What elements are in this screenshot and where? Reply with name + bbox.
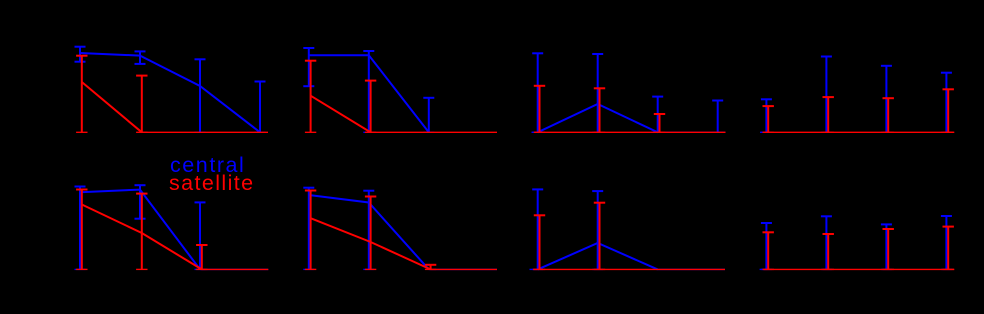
panel 5 (bottom-left): red curve floor segment 1: [202, 268, 268, 270]
panel 8 (bottom-right): blue error bar 1: [761, 223, 772, 269]
panel 1 (top-left): red curve floor segment 1: [142, 131, 268, 133]
panel 1 (top-left): blue curve "central": [80, 53, 260, 132]
panel 4 (top-right): red error bar 4: [943, 89, 954, 132]
panel 2 (top, second): blue error bar 3: [423, 98, 434, 133]
panel 5 (bottom-left): blue curve "central": [80, 190, 200, 270]
panel 5 (bottom-left): red error bar 3: [196, 245, 207, 269]
panel 3 (top, third): red curve floor segment 1: [535, 131, 726, 133]
panel 5 (bottom-left): blue error bar 3: [195, 202, 206, 269]
panel 6 (bottom, second): blue curve floor segment 1: [429, 268, 497, 270]
panel 8 (bottom-right): red curve floor segment 1: [764, 268, 955, 270]
panel 2 (top, second): red curve floor segment 1: [371, 131, 497, 133]
panel 7 (bottom, third): red curve floor segment 1: [533, 268, 725, 270]
panel 2 (top, second): red error bar 2: [365, 81, 376, 133]
panel 6 (bottom, second): blue error bar 1: [303, 188, 314, 270]
panel 5 (bottom-left): blue error bar 1: [75, 187, 86, 270]
panel 1 (top-left): blue error bar 1: [75, 47, 86, 62]
panel 4 (top-right): blue curve floor segment 1: [760, 131, 767, 133]
panel 8 (bottom-right): blue curve floor segment 1: [760, 268, 768, 270]
panel 2 (top, second): blue curve "central": [309, 55, 429, 132]
panel 7 (bottom, third): blue error bar 1: [532, 189, 543, 269]
panel 5 (bottom-left): blue curve floor segment 1: [200, 268, 268, 270]
panel 1 (top-left): red error bar 2: [136, 76, 147, 133]
panel 6 (bottom, second): red error bar 1: [305, 191, 316, 270]
panel 6 (bottom, second): red curve "satellite": [311, 218, 431, 269]
panel 4 (top-right): blue error bar 4: [941, 73, 952, 133]
panel 1 (top-left): blue error bar 2: [135, 51, 146, 64]
panel 3 (top, third): blue curve "central": [538, 104, 658, 132]
panel 1 (top-left): red curve "satellite": [82, 82, 142, 132]
panel 4 (top-right): blue error bar 1: [761, 99, 772, 132]
panel 5 (bottom-left): red error bar 1: [76, 190, 87, 270]
panel 3 (top, third): red error bar 2: [594, 88, 605, 132]
panel 8 (bottom-right): red error bar 1: [763, 232, 774, 269]
panel 3 (top, third): blue error bar 2: [592, 54, 603, 132]
panel 8 (bottom-right): red error bar 2: [823, 234, 834, 269]
panel 7 (bottom, third): blue error bar 2: [592, 191, 603, 269]
panel 1 (top-left): red error bar 1: [76, 56, 87, 133]
panel 8 (bottom-right): blue error bar 2: [821, 216, 832, 269]
panel 4 (top-right): red error bar 2: [823, 97, 834, 132]
panel 3 (top, third): red error bar 1: [534, 86, 545, 133]
panel 2 (top, second): blue error bar 2: [363, 51, 374, 132]
panel 6 (bottom, second): red error bar 2: [365, 197, 376, 270]
panel 2 (top, second): blue error bar 1: [303, 48, 314, 86]
panel 2 (top, second): red curve "satellite": [311, 96, 371, 133]
panel 4 (top-right): blue error bar 3: [881, 66, 892, 133]
panel 3 (top, third): blue error bar 3: [652, 97, 663, 133]
panel 4 (top-right): red error bar 1: [763, 106, 774, 132]
panel 8 (bottom-right): blue error bar 4: [941, 216, 952, 269]
panel 8 (bottom-right): red error bar 3: [883, 229, 894, 269]
legend label "satellite": [169, 171, 255, 195]
legend label "central": [170, 153, 245, 177]
panel 3 (top, third): blue curve floor segment 1: [532, 131, 538, 133]
panel 7 (bottom, third): blue curve floor segment 2: [658, 268, 725, 270]
panel 4 (top-right): blue error bar 2: [821, 57, 832, 133]
panel 4 (top-right): red curve floor segment 1: [763, 131, 955, 133]
panel 8 (bottom-right): blue error bar 3: [881, 224, 892, 269]
panel 3 (top, third): blue error bar 1: [532, 53, 543, 132]
panel 7 (bottom, third): red error bar 1: [534, 215, 545, 269]
panel 6 (bottom, second): blue error bar 2: [363, 191, 374, 270]
panel 3 (top, third): blue error bar 4: [712, 101, 723, 133]
panel 2 (top, second): red error bar 1: [305, 61, 316, 133]
panel 5 (bottom-left): blue error bar 2: [135, 185, 146, 219]
panel 4 (top-right): red error bar 3: [883, 98, 894, 132]
panel 6 (bottom, second): red curve floor segment 1: [431, 268, 497, 270]
panel 5 (bottom-left): red error bar 2: [136, 194, 147, 270]
panel 6 (bottom, second): red error bar 3: [425, 265, 436, 270]
panel 6 (bottom, second): blue curve "central": [309, 195, 429, 269]
panel 7 (bottom, third): red error bar 2: [594, 203, 605, 270]
panel 8 (bottom-right): red error bar 4: [943, 227, 954, 270]
panel 1 (top-left): blue error bar 3: [195, 59, 206, 132]
panel 3 (top, third): red error bar 3: [654, 114, 665, 132]
panel 1 (top-left): blue error bar 4: [255, 82, 266, 133]
panel 3 (top, third): blue curve floor segment 2: [658, 131, 726, 133]
panel 7 (bottom, third): blue curve "central": [538, 243, 658, 269]
svg-text:satellite: satellite: [169, 171, 255, 195]
panel 7 (bottom, third): blue curve floor segment 1: [530, 268, 538, 270]
panel 5 (bottom-left): red curve "satellite": [82, 205, 202, 270]
